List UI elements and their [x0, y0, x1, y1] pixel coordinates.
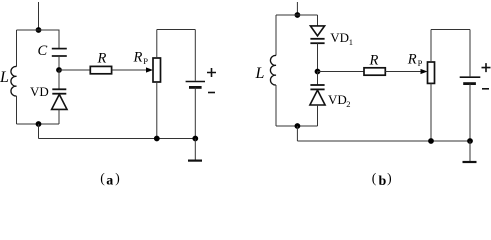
wire diode VD1 top stub (b) — [317, 15, 319, 26]
label R (b) — [369, 53, 379, 69]
node junction dot top (b) — [295, 12, 301, 18]
wire tank bottom rail (b) — [276, 125, 318, 127]
wire wiper arrow (b) — [385, 69, 427, 74]
node junction dot bottom tank (b) — [295, 123, 301, 129]
wire tank bottom rail (a) — [17, 123, 60, 125]
label Rp (a) — [133, 50, 149, 67]
wire antenna vertical (a) — [38, 2, 40, 30]
resistor R (b) — [364, 68, 385, 75]
varactor diode VD (a) — [52, 89, 67, 109]
wire potentiometer bottom (a) — [156, 82, 158, 139]
wire top rail (b) — [276, 14, 318, 16]
svg-text:): ) — [387, 171, 392, 186]
wire wiper arrow (a) — [112, 67, 153, 72]
label plus (b) — [482, 63, 491, 72]
label minus (a) — [208, 92, 215, 94]
ground (b) — [463, 141, 477, 162]
resistor R (a) — [90, 66, 111, 73]
capacitor C — [52, 49, 67, 56]
label C — [38, 43, 48, 59]
svg-text:): ) — [115, 170, 120, 185]
wire node to resistor (a) — [59, 69, 90, 71]
wire diode top stub (a) — [58, 70, 60, 89]
svg-text:2: 2 — [346, 99, 350, 109]
node junction dot rail Rp (b) — [428, 138, 434, 144]
wire capacitor bottom stub (a) — [58, 56, 60, 70]
wire top rail (a) — [17, 29, 60, 31]
label VD (a) — [30, 84, 49, 99]
wire main bottom rail (a) — [39, 138, 196, 140]
varactor diode VD2 (b) — [310, 85, 325, 105]
node junction dot top (a) — [36, 27, 42, 33]
wire battery bottom stub (a) — [194, 87, 196, 138]
wire diode VD2 top stub (b) — [317, 72, 319, 85]
wire left branch upper (a) — [16, 30, 18, 67]
svg-text:1: 1 — [349, 37, 353, 47]
wire left branch lower (a) — [16, 96, 18, 124]
svg-text:R: R — [133, 50, 143, 66]
caption (a) — [100, 170, 120, 188]
svg-text:b: b — [379, 174, 387, 187]
wire diode bottom stub (a) — [58, 109, 60, 124]
label Rp (b) — [407, 52, 423, 69]
wire battery bottom stub (b) — [469, 84, 471, 141]
svg-text:L: L — [0, 69, 9, 86]
wire main bottom rail (b) — [297, 140, 470, 142]
wire top rail right (a) — [157, 29, 196, 31]
wire top rail right (b) — [431, 29, 470, 31]
label L (a) — [0, 69, 9, 86]
wire diode VD1 bottom stub (b) — [317, 43, 319, 71]
svg-text:a: a — [106, 174, 113, 187]
wire diode VD2 bottom stub (b) — [317, 105, 319, 126]
node junction dot rail Rp (a) — [154, 136, 160, 142]
svg-text:C: C — [38, 43, 48, 59]
svg-text:R: R — [407, 52, 417, 68]
wire potentiometer bottom (b) — [430, 83, 432, 141]
inductor L (b) — [270, 55, 276, 85]
label minus (b) — [482, 88, 489, 90]
wire battery top stub (a) — [194, 30, 196, 81]
battery (b) — [460, 77, 481, 83]
wire left branch upper (b) — [275, 15, 277, 56]
label plus (a) — [207, 68, 216, 77]
svg-text:(: ( — [372, 171, 377, 186]
label VD2 (b) — [328, 92, 350, 109]
potentiometer Rp (a) — [153, 58, 161, 82]
svg-text:P: P — [143, 56, 148, 66]
svg-text:(: ( — [100, 170, 105, 185]
node junction dot mid (b) — [315, 69, 321, 75]
node junction dot bottom tank (a) — [36, 121, 42, 127]
node junction dot mid (a) — [56, 67, 62, 73]
wire battery top stub (b) — [469, 30, 471, 77]
wire tank to main rail (a) — [38, 124, 40, 139]
svg-text:R: R — [97, 51, 107, 67]
node junction dot rail battery (a) — [192, 136, 198, 142]
svg-text:P: P — [418, 58, 423, 68]
node junction dot rail battery (b) — [467, 138, 473, 144]
svg-text:VD: VD — [30, 84, 49, 99]
wire node to resistor (b) — [318, 71, 365, 73]
caption (b) — [372, 171, 392, 189]
potentiometer Rp (b) — [428, 62, 435, 83]
ground (a) — [188, 139, 202, 161]
svg-text:VD: VD — [328, 92, 347, 107]
svg-text:L: L — [255, 65, 265, 82]
label VD1 (b) — [330, 30, 353, 47]
wire left branch lower (b) — [275, 85, 277, 126]
varactor diode VD1 (b) — [310, 26, 324, 43]
wire capacitor top stub (a) — [58, 30, 60, 49]
wire antenna vertical (b) — [296, 2, 298, 15]
inductor L (a) — [11, 66, 17, 96]
battery (a) — [186, 82, 205, 88]
wire tank to main rail (b) — [296, 126, 298, 141]
svg-text:R: R — [369, 53, 379, 69]
wire potentiometer top (a) — [156, 30, 158, 59]
wire potentiometer top (b) — [430, 30, 432, 63]
label R (a) — [97, 51, 107, 67]
svg-text:VD: VD — [330, 30, 349, 45]
label L (b) — [255, 65, 265, 82]
